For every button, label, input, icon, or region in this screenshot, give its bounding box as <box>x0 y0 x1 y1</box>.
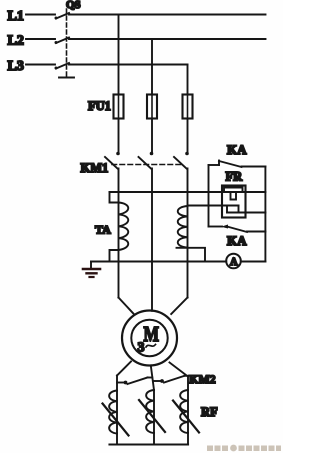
wire phase C drop from L3 <box>187 65 189 95</box>
svg-text:TA: TA <box>95 223 111 237</box>
fuse FU1 label <box>88 99 111 113</box>
wire rotor right vertical <box>187 377 189 445</box>
wire phase A KM1 to motor <box>118 169 120 298</box>
wire heater line 2 FR to right bus <box>227 212 265 214</box>
transformer TA label <box>95 223 111 237</box>
contactor KM1 contact phase B <box>139 152 154 169</box>
ground symbol <box>83 262 100 278</box>
svg-text:KA: KA <box>227 233 247 248</box>
node L2 <box>8 34 24 49</box>
wire L3 right segment <box>69 64 188 66</box>
svg-text:FU1: FU1 <box>88 99 111 113</box>
contactor KM1 contact phase C <box>174 152 189 169</box>
relay FR label <box>226 170 244 184</box>
wire ammeter to right bus <box>241 261 266 263</box>
node L1 <box>8 9 24 24</box>
wire phase A drop from L1 <box>118 15 120 95</box>
motor M inner circle <box>131 320 167 356</box>
motor M outer circle <box>122 311 177 366</box>
wire phase A fuse to KM1 <box>118 119 120 153</box>
wire heater line 1 (TA1 tap to FR) <box>110 191 223 193</box>
wire right vertical bus <box>264 167 266 262</box>
wire phase C fuse to KM1 <box>187 119 189 153</box>
node L3 <box>8 59 24 74</box>
svg-text:RF: RF <box>201 405 218 419</box>
motor M letter <box>144 322 160 346</box>
rheostat RF unit 1 slash <box>103 404 129 436</box>
relay KA lower label <box>227 233 247 248</box>
wire L3 left segment <box>26 64 55 66</box>
watermark <box>207 445 281 452</box>
switch QS label <box>66 0 81 11</box>
wire stator lead C diagonal <box>171 298 187 315</box>
contactor KM2 contact 1 <box>117 378 152 385</box>
contactor KM1 linkage dashed line <box>112 164 183 166</box>
transformer TA1 secondary coil <box>119 203 129 251</box>
svg-text:KM2: KM2 <box>189 372 216 386</box>
wire heater line 1 FR to right bus <box>246 191 266 193</box>
rheostat RF unit 3 slash <box>173 401 199 433</box>
wire phase B drop from L2 <box>151 39 153 95</box>
wire stator lead A diagonal <box>119 298 134 315</box>
wire phase B fuse to KM1 <box>151 119 153 153</box>
wire rotor lead left diagonal <box>117 362 131 376</box>
wire rotor lead mid <box>151 366 154 391</box>
wire heater line 1 inside FR box <box>222 188 246 193</box>
svg-text:L3: L3 <box>8 59 24 74</box>
switch QS pole 3 blade <box>55 63 70 70</box>
wire KA left vertical <box>208 165 210 227</box>
resistor RF label <box>201 405 218 419</box>
relay FR heater 1 tab <box>231 192 237 200</box>
svg-text:FR: FR <box>226 170 244 184</box>
svg-text:A: A <box>230 257 238 268</box>
relay KA upper label <box>227 142 247 157</box>
fuse FU1 phase A <box>114 95 124 119</box>
relay FR box <box>222 186 246 218</box>
ground line (ammeter line) <box>91 261 226 263</box>
wire phase B KM1 to motor <box>151 169 153 311</box>
wire TA1 bottom tap to ground line <box>110 250 119 262</box>
wire L1 right segment <box>69 14 266 16</box>
rheostat RF unit 2 coil <box>146 390 154 433</box>
motor 3~ label <box>138 341 156 356</box>
wire rotor left vertical <box>116 376 118 445</box>
contactor KM2 contact 2 <box>154 376 189 383</box>
svg-text:L2: L2 <box>8 34 24 49</box>
wire rotor mid vertical <box>153 390 155 445</box>
svg-text:L1: L1 <box>8 9 24 24</box>
svg-text:KA: KA <box>227 142 247 157</box>
wire L2 right segment <box>69 38 266 40</box>
rheostat RF unit 3 coil <box>180 390 188 433</box>
svg-text:QS: QS <box>66 0 81 11</box>
wire phase C KM1 to motor <box>187 169 189 298</box>
wire L1 left segment <box>26 14 55 16</box>
fuse FU1 phase B <box>147 95 157 119</box>
switch QS linkage end tick <box>59 77 74 79</box>
transformer TA2 secondary coil <box>178 206 188 248</box>
ammeter A <box>226 254 241 269</box>
switch QS pole 1 blade <box>55 13 70 20</box>
wire heater line 2 (TA2 top to FR) <box>188 205 239 207</box>
svg-text:3: 3 <box>138 341 145 356</box>
switch QS pole 2 blade <box>55 38 70 45</box>
wire rotor lead right diagonal <box>170 363 189 377</box>
contactor KM1 contact phase A <box>105 152 120 169</box>
contact KA upper <box>209 161 266 168</box>
fuse FU1 phase C <box>183 95 193 119</box>
contact KA lower <box>209 225 266 233</box>
switch QS linkage dashed line <box>66 9 68 77</box>
svg-text:KM1: KM1 <box>81 161 109 175</box>
svg-text:M: M <box>144 322 160 346</box>
transformer TA1 primary tap notch <box>110 192 119 203</box>
rheostat RF unit 2 slash <box>139 400 165 432</box>
relay FR heater 2 detour <box>227 206 239 213</box>
rheostat RF unit 1 coil <box>109 391 117 434</box>
contactor KM2 label <box>189 372 216 386</box>
contactor KM1 label <box>81 161 109 175</box>
wire rotor star bus <box>110 443 189 445</box>
wire TA2 bottom tap <box>177 248 206 262</box>
wire L2 left segment <box>26 38 55 40</box>
